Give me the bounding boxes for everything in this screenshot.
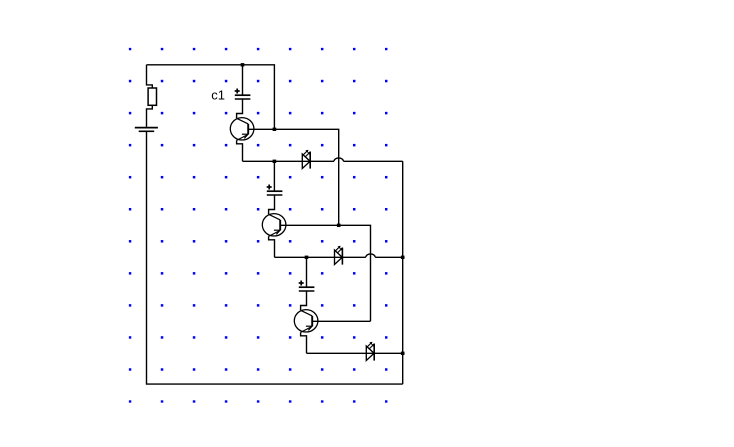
transistor Q3 bbox=[294, 291, 318, 353]
wire c2 branch from row1 bbox=[273, 161, 275, 191]
diode D1 (LED) bbox=[302, 150, 310, 169]
svg-text:c1: c1 bbox=[211, 88, 225, 103]
wire hop row2 over base link bbox=[366, 254, 375, 257]
node row3 / right rail junction bbox=[401, 352, 405, 355]
wire right rail bbox=[402, 161, 404, 384]
battery bbox=[135, 128, 158, 132]
wire c1 branch from top rail bbox=[242, 65, 244, 95]
transistor Q1 bbox=[230, 99, 254, 161]
capacitor C3 bbox=[299, 281, 315, 292]
wire left rail and bottom rail bbox=[147, 132, 403, 384]
resistor bbox=[148, 88, 156, 105]
wire hop row1 over base link bbox=[334, 158, 343, 161]
node row2 / right rail junction bbox=[401, 256, 405, 259]
wire row 2 left part bbox=[274, 256, 365, 258]
node row1 / c2 junction bbox=[273, 160, 277, 163]
node row2 / c3 junction bbox=[305, 256, 309, 259]
wire row 1 right part bbox=[343, 160, 402, 162]
wire left rail top (rail to resistor) bbox=[147, 65, 153, 88]
node Q1 base junction bbox=[273, 128, 277, 131]
diode D3 (LED) bbox=[366, 342, 374, 361]
capacitor C2 bbox=[267, 185, 283, 196]
wire row 1 (Q1 emitter line) left part bbox=[243, 160, 335, 162]
wire Q2 base to stage3 drop bbox=[280, 225, 370, 321]
wire Q1 base to stage2 drop bbox=[248, 129, 339, 225]
node Q2 base junction bbox=[337, 224, 341, 227]
transistor Q2 bbox=[262, 195, 286, 257]
diode D2 (LED) bbox=[335, 246, 343, 265]
node top rail / c1 junction bbox=[241, 63, 245, 66]
wire top rail and drop to Q1 base node bbox=[147, 65, 275, 130]
wire Q3 base lead bbox=[312, 320, 370, 322]
wire row 3 bbox=[307, 352, 403, 354]
capacitor c1 bbox=[235, 89, 251, 100]
wire row 2 right part bbox=[375, 256, 403, 258]
wire resistor to battery bbox=[147, 105, 153, 127]
wire c3 branch from row2 bbox=[306, 257, 308, 287]
